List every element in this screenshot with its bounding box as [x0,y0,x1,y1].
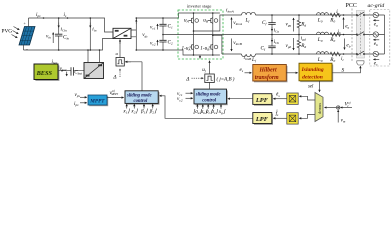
source e_c circle [373,51,378,56]
sliding mode control block 1 [125,91,160,105]
node dot row n [343,34,345,36]
svg-text:Δ: Δ [112,74,116,80]
MPPT block [88,95,108,106]
wire inverter bottom stub arrow [199,55,201,58]
DC/DC bidirectional converter U2 [84,63,104,79]
arrow Hilbert to Islanding [286,72,297,74]
capacitor Cf plates row b [268,46,275,48]
resistor R0 row n [330,33,341,37]
wire LPF1 to smc2 [228,98,253,100]
capacitor Cin plates [55,34,62,36]
DC/DC boost converter U1 [113,28,131,38]
inductor L0 row n [317,32,329,34]
inverter stage dashed box [178,10,223,59]
resistor Rd row a [297,15,300,35]
resistor R0 row a [330,13,341,17]
arrow delta2 dashed [192,77,204,79]
ac-grid dashed box [370,10,390,67]
wire boost output to DC link rail [131,13,220,50]
wire smc1 to PWM1 [120,40,142,91]
capacitor Cf branch row b [271,35,273,55]
switch Sa [356,12,364,16]
wire bottom DC bus [24,39,220,56]
arrow MPPT to smc1 [107,97,124,99]
arrow v_gb [293,38,295,50]
arrow delta1 dashed [119,69,121,77]
wire branch at x=90 [89,18,91,50]
svg-text:detection: detection [302,75,323,81]
arrow i_pv [80,102,87,104]
switch Sn [356,32,364,36]
arrow e_s to Hilbert [245,72,252,74]
arrow e_b [344,39,346,50]
BESS block [34,64,59,81]
inductor L0 row a [317,13,329,15]
wire top DC bus [29,18,114,32]
wire neutral row n [163,34,373,36]
transistor Q2 upper leg B [208,16,218,26]
demux block [315,93,323,122]
wire leg B output tap [213,35,222,54]
svg-text:control: control [134,99,149,104]
wire leg B vertical [212,13,214,55]
LPF block 2 [253,113,273,125]
arrow v_m to sum [337,110,339,123]
node dots on buses [58,17,60,19]
node dots [87,49,89,51]
node dots inverter rails [193,12,195,14]
svg-text:( j=A,B ): ( j=A,B ) [217,78,235,83]
irradiance ray arrows [12,27,20,38]
arrow i_Cb [271,38,273,42]
arrow PWM2 to inverter u_j [209,61,211,74]
multiplier block 1 [287,93,298,104]
capacitor C_bat plates [71,67,73,75]
capacitor Cin branch wire [58,18,60,50]
wire sum to demux input [325,107,337,109]
capacitor C2 plates [159,40,166,42]
arrows smc2 inputs bottom [196,105,198,109]
sliding mode control block 2 [194,89,228,105]
wire sel to demux [319,81,321,92]
transistor Q4 lower leg B [209,42,218,53]
svg-text:inverter stage: inverter stage [187,4,211,9]
svg-text:sel: sel [308,85,314,90]
arrow v_dc [135,20,137,24]
arrows smc1 inputs bottom [126,104,128,108]
wire mult1 to LPF1 [273,98,287,100]
PWM block 2 [205,74,215,83]
wire BESS to converter [58,70,84,72]
capacitor C1 plates [159,24,166,26]
svg-text:sliding mode: sliding mode [126,94,152,99]
PCC dashed boundary [351,9,353,63]
breaker control box [357,61,364,65]
node dot [67,17,69,19]
capacitor Cf plates row a [268,23,275,25]
capacitor C2 branch [162,35,164,51]
svg-text:ac-grid: ac-grid [368,3,385,9]
multiplier block 2 [287,113,298,124]
arrow v_invA [231,18,233,29]
breaker box [356,11,364,59]
svg-text:LPF: LPF [255,97,269,104]
svg-text:control: control [202,98,217,103]
PVG label [2,29,13,35]
arrow v_bat [66,72,68,76]
wire phase row b [222,53,373,55]
svg-text:Δ: Δ [185,76,189,82]
inductor Lf row a [242,12,256,15]
arrow i_Cin [58,23,60,28]
arrow v_c1 [157,24,159,30]
arrow v_invB [231,39,233,52]
Islanding detection block [299,63,333,82]
arrow e_a sense [373,19,379,21]
arrow e_c sense [373,58,379,60]
source e_b circle [373,32,378,37]
svg-text:LPF: LPF [255,116,269,123]
wire S to breaker [332,66,360,73]
inductor L0 row b [317,52,329,54]
arrow v_ga [293,18,295,32]
switch Sb [356,51,364,55]
svg-text:PCC: PCC [346,3,357,9]
node dot row a [343,14,345,16]
node dot on top bus [43,17,45,19]
node dot [136,17,138,19]
arrow v_in [52,33,54,44]
arrow v_c2 [157,40,159,46]
node dots legs [193,30,195,32]
wire LPF2 feedback to smc1 [160,96,253,119]
svg-text:BESS: BESS [36,70,53,77]
arrow i_Ca [271,27,273,31]
wire PV bottom stub [23,45,25,50]
svg-text:demux: demux [317,103,322,114]
wire phase row a [224,14,373,16]
node dots filter [271,14,273,16]
inductor Lf row b [242,54,256,57]
wire leg A output tap [194,15,225,31]
wire sources to right bus [379,15,385,54]
wire V_ref to sum [341,107,352,109]
wire PV top riser [28,18,30,27]
wire leg A vertical [193,13,195,55]
node dot row b [343,53,345,55]
svg-text:σe⌋: σe⌋ [211,109,218,115]
LPF block 1 [253,94,273,106]
arrow i_in [89,23,91,28]
svg-text:PVG: PVG [2,29,13,35]
source e_a circle [373,12,378,17]
Hilbert transform block [253,65,288,83]
arrow e_a [343,18,345,29]
PWM block 1 [116,58,124,67]
resistor R0 row b [330,52,341,56]
transistor Q1 upper leg A [189,16,199,26]
arrow v_c1 to smc2 [186,92,193,94]
svg-text:Hilbert: Hilbert [259,68,277,74]
arrow v_c2 to smc2 [186,97,193,99]
arrow e_b sense [373,39,379,41]
wire demux output 1 [299,96,315,100]
PV panel [19,27,35,46]
wire demux output 2 [299,114,315,118]
transistor Q3 lower leg A [190,42,199,53]
svg-text:MPPT: MPPT [89,99,105,105]
svg-text:sliding mode: sliding mode [195,93,221,98]
wire smc2 to PWM2 [209,83,211,90]
svg-text:Islanding: Islanding [301,67,324,73]
svg-text:transform: transform [255,75,279,81]
wire mult2 to LPF2 [273,117,287,119]
resistor Rd row b [297,35,300,55]
summing junction [337,106,340,109]
arrow v_pv [80,96,87,98]
node dots DC link [162,17,164,19]
capacitor C1 branch [162,18,164,35]
wire converter risers to DC bus [88,50,100,63]
capacitor Cf branch row a [271,15,273,35]
breaker inner dashed line [360,12,362,57]
